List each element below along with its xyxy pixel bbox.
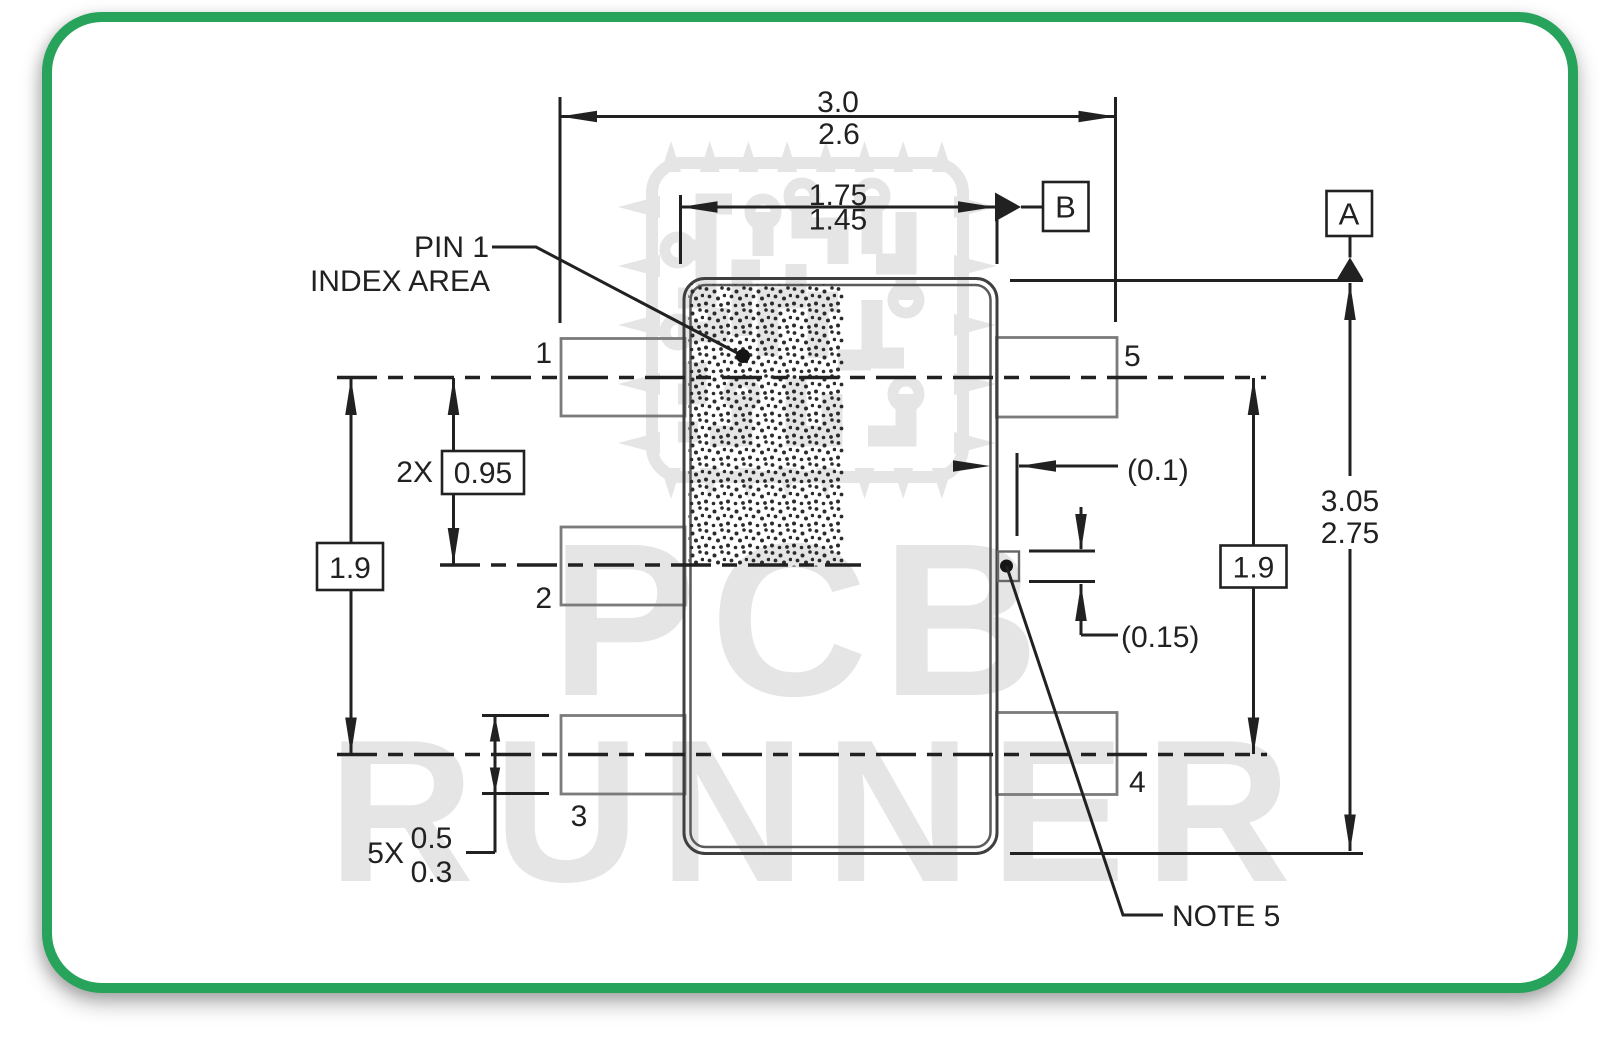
svg-text:1.45: 1.45	[809, 204, 867, 237]
svg-text:1.9: 1.9	[1233, 552, 1275, 585]
svg-text:3.05: 3.05	[1321, 485, 1379, 518]
svg-text:A: A	[1339, 197, 1360, 232]
svg-text:3: 3	[571, 800, 588, 833]
svg-text:RUNNER: RUNNER	[328, 698, 1310, 925]
svg-text:INDEX AREA: INDEX AREA	[310, 265, 490, 298]
svg-text:2.6: 2.6	[818, 118, 860, 151]
svg-text:B: B	[1055, 190, 1076, 225]
svg-text:5: 5	[1124, 340, 1141, 373]
svg-text:0.95: 0.95	[454, 457, 512, 490]
svg-text:2X: 2X	[396, 456, 433, 489]
svg-text:1.9: 1.9	[329, 552, 371, 585]
svg-text:3.0: 3.0	[817, 86, 859, 119]
svg-text:PIN 1: PIN 1	[414, 231, 489, 264]
svg-text:2.75: 2.75	[1321, 517, 1379, 550]
svg-text:5X: 5X	[367, 837, 404, 870]
svg-text:0.5: 0.5	[411, 822, 453, 855]
svg-text:(0.15): (0.15)	[1121, 621, 1199, 654]
svg-text:4: 4	[1129, 766, 1146, 799]
svg-text:2: 2	[535, 582, 552, 615]
svg-text:1: 1	[535, 337, 552, 370]
svg-text:NOTE 5: NOTE 5	[1172, 900, 1280, 933]
svg-text:0.3: 0.3	[411, 856, 453, 889]
svg-text:(0.1): (0.1)	[1127, 454, 1189, 487]
